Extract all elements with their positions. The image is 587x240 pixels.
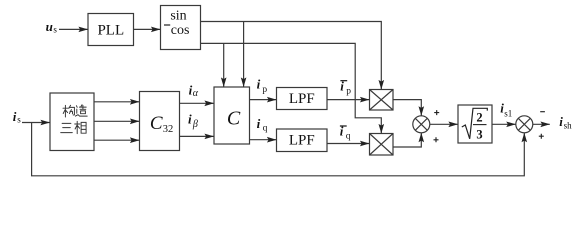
svg-text:i: i <box>188 112 192 127</box>
svg-text:s: s <box>53 24 57 34</box>
svg-text:i: i <box>257 77 261 92</box>
svg-text:sin: sin <box>170 9 186 24</box>
svg-text:β: β <box>192 119 198 130</box>
svg-text:i: i <box>340 124 344 139</box>
svg-text:32: 32 <box>163 124 174 135</box>
svg-text:i: i <box>257 116 261 131</box>
svg-text:PLL: PLL <box>97 22 124 38</box>
svg-text:C: C <box>227 107 241 129</box>
svg-text:sh: sh <box>564 121 573 131</box>
svg-text:s1: s1 <box>504 109 512 119</box>
svg-text:p: p <box>346 86 351 96</box>
svg-text:2: 2 <box>476 111 482 125</box>
svg-text:q: q <box>346 132 351 142</box>
svg-text:cos: cos <box>171 23 190 38</box>
svg-text:α: α <box>193 88 199 99</box>
svg-text:LPF: LPF <box>289 133 315 149</box>
svg-text:s: s <box>17 114 21 124</box>
svg-text:i: i <box>13 109 17 124</box>
svg-text:p: p <box>262 85 267 95</box>
svg-text:3: 3 <box>476 128 482 142</box>
svg-text:C: C <box>150 113 163 134</box>
svg-text:LPF: LPF <box>289 91 315 107</box>
svg-text:q: q <box>263 124 268 134</box>
svg-text:i: i <box>340 79 344 94</box>
svg-text:u: u <box>46 19 53 34</box>
